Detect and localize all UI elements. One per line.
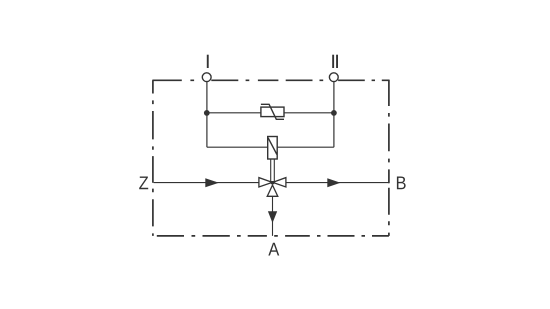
shuttle valve left triangle: [259, 178, 272, 187]
enclosure border top (dash-dot): [152, 79, 389, 81]
shuttle valve center junction: [271, 181, 274, 184]
node junction dot right: [331, 110, 337, 116]
wire from port I down to lower rail: [206, 81, 208, 147]
wire lower rail: [207, 146, 334, 148]
wire to port A: [272, 196, 274, 236]
label Z: [139, 176, 148, 189]
port II circle: [329, 73, 338, 82]
wire upper rail: [207, 112, 334, 114]
orifice insert (rect with diagonal) on lower rail: [268, 137, 278, 160]
flow arrow to A (solid): [268, 211, 277, 223]
wire channel double lines to shuttle valve: [271, 159, 275, 182]
port I circle: [202, 73, 211, 82]
label II: [332, 55, 334, 68]
enclosure border bottom (dash-dot): [157, 235, 389, 237]
label B: [397, 176, 406, 189]
wire Z-B horizontal line: [154, 182, 389, 184]
adjustable orifice (restrictor) on upper rail: [261, 104, 284, 119]
wire from port II down to lower rail: [333, 81, 335, 147]
label A: [268, 243, 279, 256]
label I: [207, 55, 209, 68]
flow arrow to B (solid): [327, 178, 340, 187]
enclosure border right (dash-dot): [388, 80, 390, 236]
node junction dot left: [204, 110, 210, 116]
enclosure border left (dash-dot): [152, 80, 154, 236]
shuttle valve right triangle: [273, 178, 286, 187]
flow arrow from Z (solid): [205, 178, 219, 187]
check valve triangle (hollow, pointing up): [267, 185, 278, 196]
